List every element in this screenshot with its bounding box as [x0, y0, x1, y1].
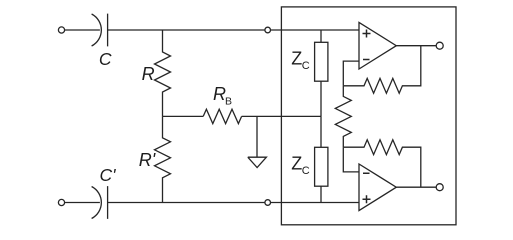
svg-text:C: C [302, 165, 310, 177]
svg-text:R': R' [139, 150, 156, 170]
resistor RB [203, 109, 241, 123]
wire [242, 115, 321, 117]
capacitor C [92, 14, 108, 47]
impedance ZC bottom [320, 116, 322, 202]
node top input [265, 27, 271, 33]
resistor R [155, 30, 171, 116]
resistor R' [155, 116, 171, 202]
feedback resistor top [343, 46, 421, 94]
op-amp U2 [359, 164, 396, 211]
wire U1 output [396, 45, 436, 47]
terminal input bottom [58, 199, 64, 205]
svg-text:Z: Z [291, 154, 302, 174]
feedback resistor bottom [343, 140, 421, 187]
wire U1 inverting input [343, 61, 359, 86]
wire [108, 202, 359, 204]
ground [248, 116, 267, 167]
resistor middle [335, 86, 351, 147]
svg-text:C: C [302, 60, 310, 72]
svg-text:R: R [142, 64, 155, 84]
svg-text:B: B [225, 96, 232, 108]
capacitor C' [92, 186, 108, 219]
wire U2 output [396, 186, 436, 188]
wire U2 inverting input [343, 147, 359, 172]
wire [163, 115, 204, 117]
wire [65, 29, 100, 31]
impedance ZC top [320, 30, 322, 116]
svg-text:C': C' [100, 165, 117, 185]
wire [108, 29, 359, 31]
svg-text:C: C [99, 49, 112, 69]
terminal output top [436, 42, 443, 49]
svg-text:Z: Z [291, 49, 302, 69]
wire [65, 202, 100, 204]
box enclosure [281, 7, 456, 225]
terminal input top [58, 27, 64, 33]
terminal output bottom [436, 184, 443, 191]
node bottom input [265, 200, 271, 206]
op-amp U1 [359, 22, 396, 69]
